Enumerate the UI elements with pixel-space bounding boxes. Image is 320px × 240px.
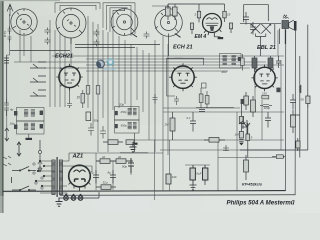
trimmer cluster between L1 L2 b <box>45 38 51 45</box>
svg-text:10: 10 <box>77 96 81 100</box>
wire mid bus y65 <box>86 64 284 66</box>
svg-text:16p: 16p <box>10 122 15 126</box>
wire lamp row <box>59 192 100 198</box>
cap EM4 right2 <box>250 22 256 35</box>
cap on y112 <box>199 110 205 112</box>
resistor below EBL <box>244 92 249 110</box>
IF coil comb 2b <box>31 123 35 129</box>
resistor right mid <box>296 141 300 151</box>
wire filter down <box>39 140 41 162</box>
svg-text:4p: 4p <box>10 108 14 112</box>
svg-text:EBL 21: EBL 21 <box>257 45 276 51</box>
IF cap 2L <box>14 125 17 130</box>
cap left rail <box>4 58 9 63</box>
wire vert c156 <box>204 165 206 182</box>
wire top loop2 inner2 <box>110 8 128 32</box>
speaker magnet bar <box>294 21 297 31</box>
wire vert r7 <box>277 30 279 56</box>
wire left rail2 <box>6 55 8 98</box>
wire top loop1 inner <box>60 5 96 11</box>
AVC resistor chain a <box>239 105 243 132</box>
IF3 coil right b <box>268 56 273 72</box>
svg-text:100p: 100p <box>264 106 271 110</box>
wire top loop1 <box>55 3 100 13</box>
svg-text:2k: 2k <box>117 155 122 159</box>
wire mid bus y71 <box>86 70 228 72</box>
wire vert mid7 <box>118 36 120 108</box>
volume potentiometer <box>239 116 246 129</box>
osc coil comb a <box>128 109 132 115</box>
IF1 resistor right <box>241 54 245 71</box>
wire EM4 top <box>168 4 225 9</box>
cap below tube2 left <box>174 96 179 105</box>
wire bus y161 <box>96 160 133 162</box>
wire bus y112 <box>163 111 284 113</box>
dial lamp 2 <box>71 196 76 201</box>
wire mid bus y62 <box>14 61 266 63</box>
antenna <box>7 4 13 16</box>
wire circleB drop <box>70 38 72 44</box>
resistor on rail x98 <box>96 86 100 95</box>
tube EM4 magic eye <box>203 14 222 37</box>
resistor osc vertical <box>86 112 91 121</box>
wire vert a <box>19 30 21 62</box>
wire vert gang1 <box>23 36 25 56</box>
ground transformer <box>56 198 63 207</box>
lamp row dots <box>65 194 81 196</box>
switch marks left edge <box>3 156 11 166</box>
cap dark lower right of EBL <box>276 88 280 93</box>
wire mid bus y56 <box>52 55 284 57</box>
dial lamp 1 <box>64 196 69 201</box>
svg-text:50p: 50p <box>94 119 99 123</box>
svg-text:32µ: 32µ <box>103 181 108 185</box>
electrolytic 8uF a <box>190 165 195 185</box>
resistor on rail x88 <box>86 86 90 95</box>
contact circles column <box>33 163 43 189</box>
wire vert mid4 <box>102 30 104 118</box>
svg-text:8µF: 8µF <box>196 172 201 176</box>
resistor 2M detector <box>170 112 175 140</box>
wire right rail b <box>307 25 309 150</box>
wire bus y153 <box>85 152 163 154</box>
wire speaker bus <box>240 24 281 56</box>
svg-text:15: 15 <box>227 13 231 17</box>
padder cap 2 <box>100 126 106 139</box>
resistor below tube2 b <box>205 96 209 109</box>
coil L3 <box>111 9 138 37</box>
IF coil comb 1a <box>24 110 28 116</box>
band switch contact 2 <box>30 76 46 82</box>
output transformer <box>282 17 289 28</box>
band filter loop 2 <box>17 121 45 134</box>
resistor 32u <box>96 185 116 190</box>
wire vert mid1 <box>87 16 89 108</box>
oscillator loop 2 <box>115 120 140 133</box>
resistor right col <box>291 110 296 133</box>
svg-text:ECH 21: ECH 21 <box>173 45 193 51</box>
svg-text:50: 50 <box>301 98 305 102</box>
wire vert mid2 <box>92 22 94 128</box>
field coil right <box>300 85 301 93</box>
resistor eb1 <box>244 155 249 180</box>
coil L4 <box>155 9 183 56</box>
transformer taps left <box>36 161 52 193</box>
electrolytic 8uF b <box>203 165 208 185</box>
resistor 2k b <box>116 159 133 164</box>
osc coil comb b <box>128 123 132 129</box>
cap 500p EBL <box>260 105 272 107</box>
frame inner right <box>284 30 287 191</box>
IF coil comb 2a <box>24 123 28 129</box>
ground EM4 <box>214 36 220 38</box>
crossed wires X2 <box>261 24 271 34</box>
wire bus y108 <box>163 107 240 109</box>
small box below tube2 <box>202 83 207 88</box>
wire left rail <box>7 14 10 128</box>
wire vert mid9 <box>130 44 132 112</box>
wire bus y157 <box>218 157 284 159</box>
wire vert mid12 <box>148 53 150 140</box>
tube2 top wire <box>175 58 204 65</box>
tap nodes <box>35 160 45 187</box>
resistor EM4 right small <box>229 23 232 33</box>
cap 8u <box>110 170 116 184</box>
IF cap 1R <box>40 111 43 116</box>
cap dark left of EBL <box>241 99 245 104</box>
trimmer cluster between L3 L4 <box>144 32 150 39</box>
mains switch arm 2 <box>12 186 36 190</box>
wire vert c150 <box>95 153 97 190</box>
wire vert ab2 <box>54 30 56 107</box>
svg-text:250p: 250p <box>120 110 128 114</box>
IF ground bar <box>26 134 33 140</box>
resistor below tube2 a <box>199 88 203 108</box>
ground bar EM4 <box>218 37 224 39</box>
transformer taps right <box>63 153 92 197</box>
wire vert c154 <box>169 140 171 191</box>
svg-text:Philips 504 A Mestermű: Philips 504 A Mestermű <box>227 200 295 207</box>
wire AVC vertical <box>241 100 246 106</box>
resistor EM4 target <box>223 7 226 22</box>
IF1 trim cap <box>238 57 241 61</box>
svg-text:0,1: 0,1 <box>187 116 192 120</box>
band filter loop 1 <box>17 108 45 122</box>
resistor EM4 anode <box>197 8 200 22</box>
resistor below tube1 "10" <box>77 90 85 108</box>
wire top loop2 <box>103 3 135 34</box>
wire vert ab3 <box>59 33 61 107</box>
IF cap 2R <box>40 124 43 129</box>
tube AZ1 rectifier <box>69 165 91 191</box>
wire vert mid13 <box>154 40 156 152</box>
wire vert r2 <box>167 44 169 155</box>
ground left rail <box>5 128 9 141</box>
wire mid bus y59 <box>86 58 240 60</box>
padder cap 500p <box>88 123 94 136</box>
resistor 2k a <box>96 159 116 164</box>
wire vert c152 <box>130 158 132 175</box>
svg-text:20p: 20p <box>118 103 124 107</box>
wire loop top right <box>244 5 269 22</box>
cap right col <box>265 112 271 128</box>
resistor 50 right edge <box>306 96 310 108</box>
oscillator loop 1 <box>115 107 140 121</box>
trimmer cluster between L2 L3 <box>94 30 100 37</box>
IF3 cap <box>276 56 281 68</box>
coil L2 <box>56 8 86 41</box>
resistor mid col <box>166 174 171 184</box>
mains switch arm 1 <box>12 167 36 171</box>
svg-text:AZ1: AZ1 <box>72 154 84 160</box>
ground osc wire <box>120 145 148 153</box>
frame outer right <box>294 25 296 195</box>
wire top loop2 inner3 <box>113 10 125 13</box>
svg-text:1M: 1M <box>235 133 240 137</box>
ground electrolytics <box>190 185 197 190</box>
mains plug arrow <box>17 142 21 156</box>
svg-text:2M: 2M <box>164 123 170 127</box>
resistor 150 below EBL <box>262 92 269 99</box>
resistor above caps2 <box>126 140 134 145</box>
wire vert r3 <box>217 140 219 191</box>
svg-text:ECH21: ECH21 <box>55 54 73 60</box>
wire vert r4 <box>236 112 238 191</box>
resistor above caps <box>103 140 123 145</box>
cap detector <box>190 112 196 132</box>
power transformer core <box>56 157 59 197</box>
wire right rail a <box>299 56 301 158</box>
wire vert mid11 <box>142 50 144 112</box>
wire vert c153 <box>154 140 156 200</box>
wire vert ab4 <box>64 36 66 107</box>
ground filter arrow <box>38 161 42 172</box>
wire mid bus y68 <box>44 67 250 69</box>
wire vert ab <box>49 20 51 107</box>
svg-text:464: 464 <box>222 70 227 74</box>
osc ground bar <box>132 133 138 145</box>
resistor EM4 grid2 <box>173 4 178 20</box>
power transformer secondary winding <box>59 160 62 195</box>
capacitor antenna series 2 <box>8 37 12 42</box>
IF coil comb 1b <box>31 110 35 116</box>
band switch contact 1 <box>30 62 46 68</box>
wire vert mid6 <box>112 13 114 110</box>
wire right links <box>240 115 308 150</box>
ground above <box>130 142 137 152</box>
node junction below filter <box>38 150 41 153</box>
osc coil comb a2 <box>133 109 137 115</box>
fuse lamp <box>11 177 13 183</box>
cap av <box>223 145 229 151</box>
wire vert r1 <box>162 36 164 191</box>
IF1 comb b <box>232 56 236 65</box>
tube EBL21 <box>251 65 277 92</box>
IF1 loop <box>220 54 242 69</box>
wire bus y150 <box>160 149 284 151</box>
trimmer cluster between L2 L3 b <box>94 40 100 47</box>
AVC resistor chain b <box>239 132 243 139</box>
svg-text:50µ: 50µ <box>89 171 94 175</box>
wire vert c151 <box>112 161 114 190</box>
svg-text:60p: 60p <box>122 165 127 169</box>
osc coil comb b2 <box>133 123 137 129</box>
svg-text:Kf=452kc/s: Kf=452kc/s <box>242 182 262 186</box>
coil L1 <box>11 9 37 35</box>
resistor av line <box>204 138 225 143</box>
dial lamp 3 <box>78 196 83 201</box>
wire speaker feed <box>275 24 285 45</box>
tweeter zigzag <box>283 15 287 17</box>
svg-text:10k: 10k <box>172 175 177 179</box>
tube ECH21 first <box>56 64 82 91</box>
svg-text:150: 150 <box>262 92 267 96</box>
IF1 comb a <box>223 56 227 65</box>
wire below tube2 <box>196 91 234 108</box>
switch contact dots <box>19 170 30 192</box>
wire top loop2 inner <box>107 5 132 36</box>
cap EBL screen <box>290 94 296 110</box>
tube ECH21 second <box>169 63 197 91</box>
wire vert mid10 <box>136 47 138 100</box>
trimmer cluster between L1 L2 <box>45 28 51 35</box>
tube2 left loop <box>167 58 183 96</box>
wire vert mid5 <box>107 32 109 152</box>
wire vert gang1b <box>30 36 32 62</box>
speaker <box>289 20 294 30</box>
frame outer bottom <box>60 194 295 196</box>
wire vert b1 <box>70 39 72 66</box>
AVC small resistor right <box>246 123 250 158</box>
watermark dark blob <box>96 58 116 70</box>
osc cap b <box>115 124 118 128</box>
AVC cap to ground <box>239 140 243 146</box>
capacitor antenna series <box>8 26 12 34</box>
wire vert r5 <box>254 68 256 108</box>
frame inner bottom / chassis bus <box>3 190 285 193</box>
cap EM4 right <box>243 12 249 25</box>
wire top-left add1 <box>10 45 160 51</box>
resistor EM4 grid <box>166 4 171 20</box>
electrolytic 60p <box>128 158 134 173</box>
cap 50u <box>93 170 99 184</box>
resistor right col2 <box>251 96 256 117</box>
svg-text:TA-B: TA-B <box>3 31 7 38</box>
band switch contact 3 <box>30 90 46 96</box>
wire bus y140 <box>133 139 284 141</box>
cap below tube1 <box>67 88 72 108</box>
resistor 50 bottom right <box>272 155 285 159</box>
svg-text:500p: 500p <box>121 124 128 128</box>
wire coilD top <box>152 6 169 9</box>
wire vert c155 <box>192 165 194 191</box>
IF3 coil right a <box>252 56 257 72</box>
potentiometer volume <box>242 120 250 134</box>
svg-text:EM 4: EM 4 <box>195 34 207 40</box>
crossed wires X1 <box>251 24 261 34</box>
power transformer primary winding <box>52 160 55 195</box>
cap left rail2 <box>4 98 9 116</box>
IF cap 1L <box>14 111 17 116</box>
resistor EM4 left small <box>190 23 193 34</box>
cap 1u near x155 <box>153 94 158 104</box>
wire vert mid8 <box>124 40 126 104</box>
wire vert mid3 <box>97 24 99 152</box>
svg-text:2k: 2k <box>101 155 106 159</box>
osc cap a <box>115 111 118 115</box>
wire bus y165b <box>185 164 210 166</box>
wire vert r8 <box>280 60 282 150</box>
wire vert r6 <box>261 100 263 140</box>
svg-text:8µ: 8µ <box>108 171 112 175</box>
